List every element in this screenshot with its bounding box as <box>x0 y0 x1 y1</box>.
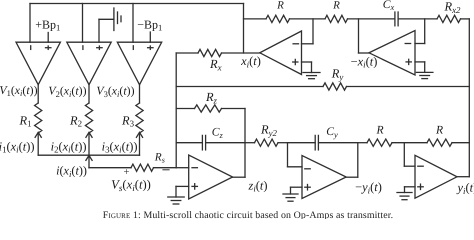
wire U5 inverting input <box>288 166 303 168</box>
wire drop to U2 inverting input <box>82 4 84 43</box>
wire Rx to x_i node <box>222 52 260 54</box>
op-amp U7 <box>260 31 302 75</box>
U5 plus mark <box>305 185 310 190</box>
svg-text:Vs​(xi​(t)): Vs​(xi​(t)) <box>111 178 151 193</box>
U8 plus mark <box>406 59 411 64</box>
wire U2 output <box>88 85 90 103</box>
arrow i2 <box>86 132 92 137</box>
svg-text:+: + <box>124 167 130 178</box>
svg-text:V1​(xi​(t)): V1​(xi​(t)) <box>0 83 38 98</box>
label Ry <box>331 67 344 82</box>
wire y_i net right edge <box>468 19 470 177</box>
wire R2 to bus <box>88 133 90 155</box>
wire U4 inverting input <box>176 167 189 169</box>
label -x_i(t) <box>351 54 378 69</box>
U1 plus mark <box>46 46 51 49</box>
wire R to U6 node <box>392 142 427 144</box>
U7 plus mark <box>293 59 298 64</box>
wire U7 noninverting to ground <box>302 62 312 73</box>
label -y_i(t) <box>355 180 382 195</box>
resistor R3 <box>136 103 143 133</box>
op-amp U4 <box>189 155 233 199</box>
label R1 <box>18 113 31 128</box>
ground U8 <box>416 72 433 78</box>
wire to R input <box>358 142 367 144</box>
ground U5 <box>283 194 298 201</box>
label Rx <box>209 57 222 72</box>
label Vs(x_i(t)) <box>111 178 151 193</box>
wire Cx to U8 node <box>398 18 437 20</box>
label i3(x_i(t)) <box>102 139 138 154</box>
resistor R bottom feedback <box>427 139 452 146</box>
svg-text:R: R <box>435 124 443 137</box>
label Cz <box>212 126 224 140</box>
wire y node vertical <box>287 143 289 167</box>
comparator U1 <box>16 42 60 84</box>
wire U6 input vertical <box>403 143 405 167</box>
wire U4 noninverting to ground <box>176 186 189 197</box>
op-amp U6 <box>415 155 457 198</box>
resistor R2 <box>85 103 92 133</box>
svg-text:i(xi​(t)): i(xi​(t)) <box>56 164 87 179</box>
U8 minus mark <box>405 43 410 45</box>
resistor Rs <box>131 164 154 171</box>
wire U6 noninverting to ground <box>405 187 416 193</box>
arrow i total <box>86 155 92 160</box>
label x_i(t) <box>240 54 261 69</box>
wire bus down to Rs <box>88 155 90 168</box>
wire +Bp1 stub <box>47 33 49 43</box>
wire battery to U2 noninverting input <box>98 19 100 42</box>
wire U3 output <box>139 85 141 103</box>
svg-text:xi​(t): xi​(t) <box>240 54 261 69</box>
comparator U3 <box>117 42 161 84</box>
wire z to Ry2 <box>245 142 255 144</box>
wire x_i to R feedback <box>244 18 267 20</box>
label i1(x_i(t)) <box>0 139 35 154</box>
U6 minus mark <box>418 165 423 167</box>
label Rs <box>154 151 165 164</box>
wire Ry2 to y node <box>278 142 288 144</box>
wire R1 to bus <box>37 133 39 155</box>
label i(x_i(t)) <box>56 164 87 179</box>
svg-text:R: R <box>276 0 284 12</box>
battery B1 <box>99 8 121 31</box>
label Rz <box>205 90 218 105</box>
wire -x_i riser <box>359 19 370 53</box>
wire U5 output <box>346 176 358 178</box>
wire node to Cz <box>176 142 202 144</box>
comparator U2 <box>67 42 111 84</box>
U4 plus mark <box>192 184 197 189</box>
U2 plus mark <box>97 46 102 49</box>
resistor Rx2 <box>437 15 461 22</box>
U2 minus mark <box>82 46 84 50</box>
op-amp U5 <box>302 156 346 199</box>
label R bottom input <box>375 124 383 137</box>
label Rx2 <box>444 0 462 15</box>
wire R to U7 input node <box>290 18 326 20</box>
arrow i1 <box>35 132 41 137</box>
label y_i(t) <box>456 181 474 196</box>
wire R3 to bus <box>139 133 141 155</box>
wire y feedback vertical <box>357 143 359 178</box>
wire U1 output <box>37 85 39 103</box>
svg-text:R: R <box>375 124 383 137</box>
svg-text:V3​(xi​(t)): V3​(xi​(t)) <box>96 84 134 99</box>
label Vs minus <box>163 169 169 171</box>
wire drop to node x_i(t) <box>243 4 245 54</box>
ground U6 <box>397 193 412 200</box>
label V3(x_i(t)) <box>96 84 134 99</box>
label Vs plus <box>124 167 130 178</box>
label Cx <box>383 0 395 12</box>
resistor Ry2 <box>255 139 279 146</box>
U4 minus mark <box>192 167 197 169</box>
wire U8 noninverting to ground <box>415 62 425 73</box>
wire Cy to output riser <box>319 142 358 144</box>
label V2(x_i(t)) <box>48 84 86 99</box>
label R bottom feedback <box>435 124 443 137</box>
wire top bus x_i(t) <box>30 3 244 5</box>
wire R to -x_i node <box>348 18 395 20</box>
label Cy <box>326 125 338 139</box>
wire U5 noninverting to ground <box>291 187 303 194</box>
wire U6 inverting input <box>404 165 415 167</box>
label i2(x_i(t)) <box>51 139 87 154</box>
wire U7 input drop <box>302 19 314 44</box>
label +Bp1 <box>35 17 60 32</box>
wire -Bp1 stub <box>149 32 151 42</box>
wire z feedback vertical <box>244 109 246 178</box>
wire node to Ry <box>176 86 323 88</box>
wire Rs to node <box>154 167 177 169</box>
capacitor Cy <box>315 135 318 150</box>
U1 minus mark <box>30 46 32 50</box>
wire Ry to y_i net <box>347 86 470 88</box>
wire node to Rz <box>176 108 194 110</box>
label Ry2 <box>260 123 278 138</box>
wire drop to U1 inverting input <box>29 4 31 43</box>
label R top feedback <box>276 0 284 12</box>
ground U4 <box>168 197 184 204</box>
svg-text:R: R <box>332 0 340 12</box>
label R3 <box>121 113 135 128</box>
wire y node to Cy <box>288 142 316 144</box>
resistor R top feedback <box>266 15 290 22</box>
U6 plus mark <box>418 184 423 189</box>
U5 minus mark <box>305 168 310 170</box>
resistor Rz <box>195 105 222 112</box>
node summing vertical <box>175 53 177 168</box>
svg-text:Figure 1: Multi-scroll chaotic: Figure 1: Multi-scroll chaotic circuit b… <box>103 210 393 219</box>
resistor R bottom input <box>367 139 392 146</box>
arrow i3 <box>136 132 142 137</box>
label z_i(t) <box>247 178 267 193</box>
label R2 <box>69 113 82 128</box>
wire U8 inverting input <box>415 19 425 44</box>
resistor Ry <box>323 83 347 90</box>
wire Cz to output <box>206 142 245 144</box>
wire summing bus <box>38 154 139 156</box>
U3 minus mark <box>132 46 134 50</box>
resistor R1 <box>35 103 42 133</box>
label -Bp1 <box>137 17 162 32</box>
wire Rz to output <box>222 108 246 110</box>
label R top input <box>332 0 340 12</box>
wire U6 output <box>457 176 469 178</box>
svg-text:yi​(t): yi​(t) <box>456 181 474 196</box>
resistor Rx <box>198 49 222 56</box>
wire drop to U3 inverting input <box>132 4 134 43</box>
op-amp U8 <box>369 31 415 76</box>
U3 plus mark <box>148 46 153 49</box>
capacitor Cz <box>202 135 205 150</box>
wire U4 output <box>233 176 245 178</box>
wire Rx2 to y_i net <box>461 18 470 20</box>
wire R feedback to y_i net <box>452 142 469 144</box>
wire to Rs <box>89 167 131 169</box>
label V1(x_i(t)) <box>0 83 38 98</box>
wire node to Rx <box>176 52 198 54</box>
svg-text:V2​(xi​(t)): V2​(xi​(t)) <box>48 84 86 99</box>
resistor R top input <box>325 15 348 22</box>
svg-text:zi​(t): zi​(t) <box>247 178 267 193</box>
capacitor Cx <box>395 12 398 26</box>
ground U7 <box>303 73 320 79</box>
U7 minus mark <box>293 43 298 45</box>
